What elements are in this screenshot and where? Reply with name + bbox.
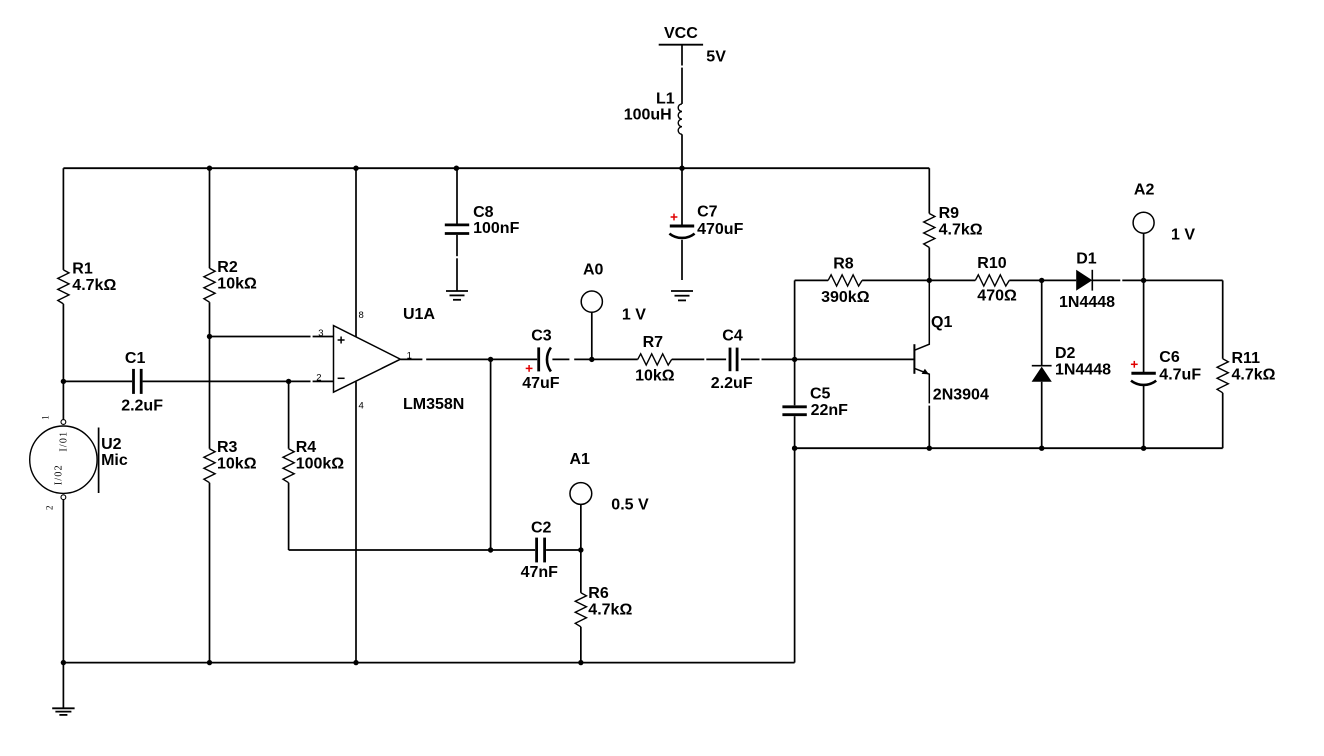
svg-text:A0: A0 — [583, 262, 604, 279]
svg-text:R4: R4 — [296, 439, 317, 456]
capacitor C8 — [445, 225, 469, 234]
junction R2-R3 / pin3 — [207, 334, 212, 339]
capacitor C1 — [134, 369, 142, 394]
wire R3 bottom — [209, 483, 211, 663]
junction A0 node — [589, 357, 594, 362]
wire output feedback vertical — [490, 359, 492, 550]
junction A1 / R6 node — [578, 547, 583, 552]
wire C8 bottom — [456, 235, 458, 291]
junction feedback / C2 — [488, 547, 493, 552]
C2 labels — [521, 519, 559, 581]
wire C1 right / pin2 net — [143, 380, 334, 382]
junction output / feedback — [488, 357, 493, 362]
capacitor C7 — [669, 226, 694, 238]
svg-text:D1: D1 — [1076, 251, 1097, 268]
wire D2 bottom — [1041, 382, 1043, 448]
R4 labels — [296, 439, 345, 473]
wire A1 stub — [580, 504, 582, 550]
wire feedback to C2 — [289, 549, 535, 551]
R7 labels — [635, 334, 675, 385]
svg-text:2: 2 — [45, 506, 55, 511]
wire base node to R8 level — [794, 280, 796, 359]
wire left rail mid (R1 to mic) — [62, 304, 64, 420]
wire R2 bottom to node — [209, 302, 211, 336]
terminal A2 — [1133, 212, 1154, 233]
R6 labels — [588, 585, 632, 619]
R2 labels — [217, 259, 257, 293]
svg-text:100kΩ: 100kΩ — [296, 456, 345, 473]
resistor R8 — [828, 275, 862, 286]
svg-text:C1: C1 — [125, 350, 146, 367]
svg-text:10kΩ: 10kΩ — [635, 367, 675, 384]
svg-text:4: 4 — [359, 400, 364, 411]
svg-text:8: 8 — [359, 310, 364, 321]
wire C1 left — [63, 380, 132, 382]
svg-text:R1: R1 — [72, 260, 93, 277]
U1A pin 4 number — [359, 400, 364, 411]
terminal A0 — [581, 291, 602, 312]
capacitor C4 — [730, 348, 737, 372]
resistor R2 — [204, 268, 215, 302]
wire Q1 emitter — [915, 369, 929, 449]
svg-text:2: 2 — [316, 373, 321, 384]
svg-text:47nF: 47nF — [521, 564, 559, 581]
wire R2 top — [209, 168, 211, 268]
wire pin3 net — [210, 336, 334, 338]
svg-text:47uF: 47uF — [522, 375, 560, 392]
microphone U2 body — [30, 426, 99, 493]
junction sub-rail / D2 — [1039, 446, 1044, 451]
VCC 5V value label — [706, 48, 726, 65]
A0 labels — [583, 262, 646, 324]
svg-text:VCC: VCC — [664, 25, 698, 42]
U2 pin 2 number — [45, 506, 55, 511]
svg-text:U1A: U1A — [403, 306, 435, 323]
junction bottom rail / R3 — [207, 660, 212, 665]
ground (main, bottom left) — [52, 708, 74, 715]
resistor R6 — [575, 593, 586, 627]
C8 labels — [473, 204, 519, 237]
U2 pin name I/01 — [59, 431, 70, 452]
transistor Q1 — [914, 344, 929, 374]
wire C3 to A0 node — [552, 358, 591, 360]
resistor R10 — [975, 275, 1009, 286]
inductor L1 — [678, 104, 682, 134]
junction base node — [792, 357, 797, 362]
svg-text:1: 1 — [407, 350, 412, 361]
wire left rail upper — [62, 168, 64, 270]
U2 pin 2 terminal — [61, 495, 66, 500]
wire R9 top — [928, 168, 930, 213]
junction sub-rail / C6 — [1141, 446, 1146, 451]
junction top rail / R2 — [207, 166, 212, 171]
capacitor C5 — [782, 407, 806, 415]
wire C6 top — [1143, 280, 1145, 373]
wire pin4 vertical — [355, 382, 357, 663]
L1 labels — [624, 91, 675, 124]
svg-text:C4: C4 — [722, 328, 743, 345]
R9 labels — [939, 205, 983, 239]
wire VCC top rail — [63, 167, 929, 169]
R3 labels — [217, 439, 257, 473]
C3 polarity mark — [526, 365, 533, 372]
wire A0 node to R7 — [592, 358, 638, 360]
svg-text:22nF: 22nF — [811, 402, 849, 419]
C5 labels — [810, 386, 848, 420]
wire L1 bottom — [681, 134, 683, 168]
junction sub-rail / C5 — [792, 446, 797, 451]
junction top rail / pin8 — [353, 166, 358, 171]
junction D1 / A2 / C6 — [1141, 278, 1146, 283]
wire C8 top — [456, 168, 458, 225]
wire R9 bottom — [928, 248, 930, 281]
wire R11 top — [1222, 280, 1224, 358]
wire ground stub bottom-left — [62, 663, 64, 708]
wire R11 bottom — [1222, 393, 1224, 448]
resistor R9 — [924, 214, 935, 248]
junction bottom rail / R6 — [578, 660, 583, 665]
U2 pin name I/02 — [54, 464, 65, 485]
C3 labels — [522, 328, 560, 392]
wire C5 bottom stub — [794, 416, 796, 448]
wire C5 top stub — [794, 359, 796, 405]
svg-text:C3: C3 — [531, 328, 552, 345]
R11 labels — [1232, 350, 1276, 384]
wire bottom ground rail — [63, 662, 794, 664]
wire C7 ground stub — [681, 240, 683, 280]
wire R8 right — [862, 279, 929, 281]
wire A0 stub — [591, 312, 593, 359]
svg-text:2N3904: 2N3904 — [933, 386, 989, 403]
svg-text:R7: R7 — [643, 334, 664, 351]
svg-text:A1: A1 — [570, 451, 591, 468]
U2 pin 1 terminal — [61, 420, 66, 425]
diode D2 — [1032, 366, 1052, 382]
wire C4 to base node — [741, 358, 795, 360]
wire R6 top — [580, 550, 582, 593]
U1A labels — [403, 306, 464, 413]
svg-text:I/02: I/02 — [54, 464, 65, 485]
svg-text:4.7kΩ: 4.7kΩ — [72, 277, 116, 294]
svg-text:4.7kΩ: 4.7kΩ — [588, 602, 632, 619]
wire node to R3 top — [209, 337, 211, 449]
wire Q1 collector — [915, 280, 929, 350]
junction R4 / pin2 — [286, 379, 291, 384]
U1A pin 8 number — [359, 310, 364, 321]
wire R6 bottom — [580, 627, 582, 663]
U2 labels — [101, 436, 128, 469]
wire op-amp output — [400, 358, 537, 360]
svg-text:1: 1 — [41, 415, 51, 420]
wire R10 right — [1009, 279, 1041, 281]
junction top rail / C8 — [454, 166, 459, 171]
terminal A1 — [570, 483, 592, 505]
wire D1 right — [1092, 279, 1143, 281]
svg-text:1N4448: 1N4448 — [1059, 294, 1115, 311]
svg-text:1 V: 1 V — [1171, 227, 1195, 244]
wire mid rail right to R11 — [1144, 279, 1223, 281]
svg-text:U2: U2 — [101, 436, 122, 453]
wire C6 bottom — [1143, 385, 1145, 448]
resistor R4 — [283, 449, 294, 483]
wire R4 top — [288, 381, 290, 448]
R8 labels — [821, 255, 870, 306]
svg-text:R6: R6 — [588, 585, 609, 602]
R1 labels — [72, 260, 116, 294]
ground (C7) — [671, 291, 693, 300]
svg-text:10kΩ: 10kΩ — [217, 456, 257, 473]
wire C2 to A1 node — [546, 549, 581, 551]
capacitor C6 — [1131, 373, 1156, 385]
svg-text:R11: R11 — [1232, 350, 1261, 367]
wire D1 left — [1042, 279, 1077, 281]
svg-text:I/01: I/01 — [59, 431, 70, 452]
svg-text:100nF: 100nF — [473, 220, 519, 237]
svg-text:C2: C2 — [531, 519, 552, 536]
A2 labels — [1134, 181, 1195, 243]
svg-text:5V: 5V — [706, 48, 726, 65]
U1A pin 2 number — [316, 373, 321, 384]
resistor R7 — [638, 354, 672, 365]
C6 polarity mark — [1131, 361, 1138, 368]
C7 labels — [697, 204, 743, 238]
svg-text:1N4448: 1N4448 — [1055, 361, 1111, 378]
resistor R11 — [1217, 359, 1228, 393]
U1A pin 3 number — [318, 328, 323, 339]
junction R9 / R8 / collector — [927, 278, 932, 283]
svg-text:390kΩ: 390kΩ — [821, 289, 870, 306]
R10 labels — [977, 255, 1017, 305]
ground (C8) — [446, 291, 468, 300]
wire D2 top — [1041, 280, 1043, 365]
svg-text:C5: C5 — [810, 386, 831, 403]
svg-text:LM358N: LM358N — [403, 396, 464, 413]
svg-text:470uF: 470uF — [697, 221, 743, 238]
svg-text:4.7kΩ: 4.7kΩ — [1232, 367, 1276, 384]
wire R8 left — [795, 279, 829, 281]
wire emitter sub-rail — [795, 447, 1223, 449]
svg-text:L1: L1 — [656, 91, 675, 108]
junction bottom rail / pin4 — [353, 660, 358, 665]
svg-text:470Ω: 470Ω — [977, 288, 1017, 305]
Q1 labels — [931, 314, 989, 403]
op-amp U1A — [334, 326, 401, 393]
wire R10 left — [929, 279, 975, 281]
junction top rail / L1-C7 — [679, 166, 684, 171]
D2 labels — [1055, 345, 1111, 378]
junction R10 / D2 — [1039, 278, 1044, 283]
svg-text:4.7uF: 4.7uF — [1159, 367, 1201, 384]
wire sub-rail down to bottom rail — [794, 448, 796, 662]
svg-text:C6: C6 — [1159, 349, 1180, 366]
wire VCC stub — [681, 45, 683, 104]
svg-text:R9: R9 — [939, 205, 960, 222]
VCC supply symbol — [659, 25, 703, 45]
svg-text:1 V: 1 V — [622, 306, 646, 323]
svg-text:10kΩ: 10kΩ — [217, 276, 257, 293]
svg-text:R10: R10 — [977, 255, 1006, 272]
C7 polarity mark — [671, 214, 678, 221]
C1 labels — [121, 350, 163, 414]
U1A pin 1 number — [407, 350, 412, 361]
svg-text:R8: R8 — [833, 255, 854, 272]
U2 pin 1 number — [41, 415, 51, 420]
wire R7 to C4 — [672, 358, 726, 360]
capacitor C3 — [539, 347, 551, 371]
A1 labels — [570, 451, 649, 513]
wire Q1 base net — [795, 358, 914, 360]
svg-text:4.7kΩ: 4.7kΩ — [939, 222, 983, 239]
capacitor C2 — [537, 538, 545, 563]
svg-text:3: 3 — [318, 328, 323, 339]
wire left rail lower (mic to bottom rail) — [62, 499, 64, 662]
junction sub-rail / emitter — [927, 446, 932, 451]
svg-text:C8: C8 — [473, 204, 494, 221]
svg-text:2.2uF: 2.2uF — [121, 397, 163, 414]
C6 labels — [1159, 349, 1201, 384]
svg-text:2.2uF: 2.2uF — [711, 375, 753, 392]
svg-text:Q1: Q1 — [931, 314, 952, 331]
wire R4 bottom — [288, 483, 290, 550]
wire C7 top — [681, 168, 683, 226]
wire pin8 vertical — [355, 168, 357, 337]
junction bottom rail / ground — [61, 660, 66, 665]
D1 labels — [1059, 251, 1115, 312]
wire A2 stub — [1143, 233, 1145, 280]
resistor R3 — [204, 449, 215, 483]
svg-text:A2: A2 — [1134, 181, 1155, 198]
svg-text:R3: R3 — [217, 439, 238, 456]
svg-text:D2: D2 — [1055, 345, 1076, 362]
resistor R1 — [58, 270, 69, 304]
svg-text:C7: C7 — [697, 204, 718, 221]
svg-text:R2: R2 — [217, 259, 238, 276]
C4 labels — [711, 328, 753, 393]
diode D1 — [1076, 270, 1092, 291]
svg-text:0.5 V: 0.5 V — [611, 496, 649, 513]
svg-text:100uH: 100uH — [624, 107, 672, 124]
junction C1 / mic node — [61, 379, 66, 384]
svg-text:Mic: Mic — [101, 452, 128, 469]
